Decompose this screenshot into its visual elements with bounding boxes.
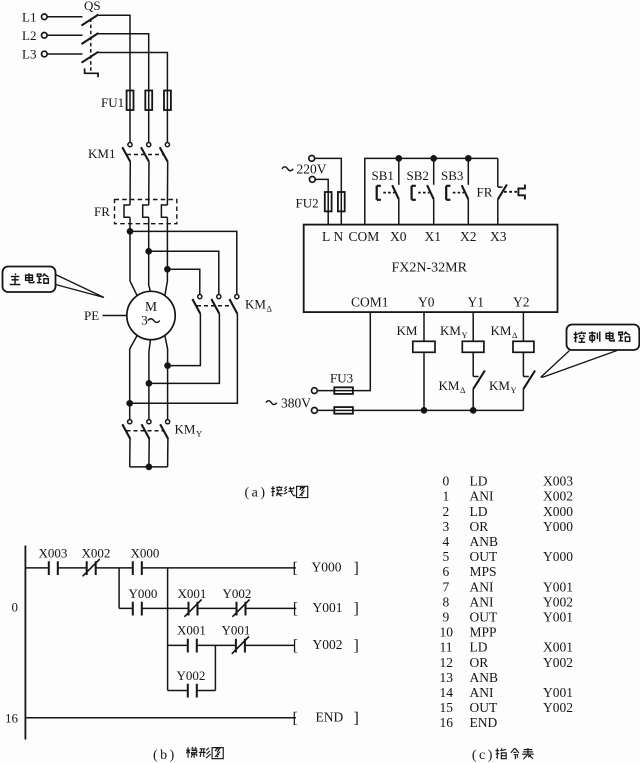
svg-text:15: 15 [440,700,454,715]
node phase C to delta pole 1 [165,267,200,295]
label KM Y NC contact [489,378,517,395]
coil KM delta [513,341,534,352]
pushbutton SB2 [412,158,434,224]
fuse FU1 pole 1 [127,91,134,111]
wire phase B (QS to KM1) [99,34,149,143]
svg-text:3: 3 [443,519,450,534]
caption (b) [153,747,223,763]
svg-text:LD: LD [470,640,488,655]
svg-text:10: 10 [440,625,454,640]
output coil Y000 [293,560,359,578]
NC contact Y002 [232,600,249,617]
switch QS pole 1 [47,15,98,26]
svg-text:KM: KM [245,297,266,312]
svg-text:ANB: ANB [470,534,499,549]
node phase B to delta pole 2 [146,249,219,295]
svg-text:Y002: Y002 [543,700,573,715]
svg-text:OUT: OUT [470,549,498,564]
KM1 linkage (dashed) [127,154,163,156]
svg-text:8: 8 [443,594,450,609]
PLC FX2N-32MR box [304,225,558,313]
node delta2 / B' [146,381,151,386]
svg-text:M: M [145,299,157,314]
wire phase C (QS to KM1) [99,53,168,143]
wire COM1 to FU3 [317,312,370,391]
output coil Y001 [293,600,359,618]
svg-text:KM: KM [397,323,418,338]
wire COM riser and input bus [365,158,498,224]
wire delta pole1 to motor lead C' [168,314,201,366]
svg-text:ANI: ANI [470,594,494,609]
svg-text:4: 4 [443,534,450,549]
caption (c) [472,748,534,763]
terminal 380V a [312,388,318,394]
wire Y2 to KMdelta coil [522,312,524,341]
svg-text:X1: X1 [425,229,442,244]
svg-text:[: [ [293,560,298,577]
NC contact KM delta [473,371,485,411]
coil KM [413,341,435,352]
contactor KM delta pole 1 [192,295,202,314]
svg-text:COM1: COM1 [351,295,389,310]
fuse FU2 pole 2 [338,192,345,211]
fuse FU1 pole 2 [145,91,152,111]
svg-text:FR: FR [477,185,493,200]
svg-text:KM: KM [440,323,461,338]
contactor KM1 pole 3 [160,143,170,162]
terminal L1 [42,14,48,20]
coil KM Y [462,341,484,352]
thermal overload FR box (dashed) [115,200,177,224]
svg-text:Δ: Δ [267,304,273,314]
svg-text:ANI: ANI [470,579,494,594]
svg-text:Y000: Y000 [129,586,158,601]
svg-text:Δ: Δ [460,385,466,395]
label KM Y coil [440,323,468,340]
contactor KM Y pole 2 [142,420,151,439]
wire KMY pole2 to star point [148,439,150,467]
callout box control circuit label [541,325,640,378]
terminal 380V b [312,408,318,414]
svg-text:X003: X003 [543,474,573,489]
svg-text:N: N [334,229,344,244]
svg-text:Y002: Y002 [543,655,573,670]
contact X001 [188,639,197,653]
left power rail [24,546,26,740]
NC contact X002 [83,559,100,576]
terminal 220V L [309,156,315,162]
svg-text:X3: X3 [490,229,507,244]
svg-text:5: 5 [443,549,450,564]
svg-text:7: 7 [443,579,450,594]
svg-text:L: L [322,229,330,244]
svg-text:Y001: Y001 [543,610,573,625]
svg-text:220V: 220V [297,162,327,177]
QS handle [85,68,99,77]
motor lead B' (motor to KMY) [149,339,151,419]
svg-text:Y: Y [196,429,202,439]
PLC terminal labels bottom row [351,295,530,310]
svg-text:KM1: KM1 [88,146,115,161]
wire phase C (FR to motor) [165,217,168,296]
svg-text:SB3: SB3 [441,168,463,183]
svg-text:(c): (c) [472,748,495,763]
svg-text:9: 9 [443,610,450,625]
rung 2 (Y002) wire segments [168,644,295,646]
label KM delta NC contact [439,378,467,395]
svg-text:Δ: Δ [512,330,518,340]
svg-text:MPP: MPP [470,625,497,640]
svg-text:Y: Y [462,330,468,340]
label KM Y [175,422,203,439]
terminal 220V N [309,177,315,183]
contactor KM1 pole 2 [141,143,151,162]
label KM delta coil [491,323,519,340]
node phase A to delta pole 3 [127,229,236,295]
PLC terminal labels top row [322,229,507,244]
svg-text:[: [ [293,638,298,655]
svg-text:X003: X003 [39,546,68,561]
wire phase A (KM1 to FR) [129,162,131,205]
svg-text:MPS: MPS [470,564,497,579]
svg-text:ANI: ANI [470,685,494,700]
wire phase A (FR to motor) [130,217,137,296]
svg-text:KM: KM [491,323,512,338]
rung 1 (parallel Y000) wire segments [119,607,296,609]
fuse FU3 pole 1 [334,387,353,394]
svg-text:Y1: Y1 [468,295,485,310]
contactor KM1 pole 1 [122,143,132,162]
pushbutton SB1 [377,158,399,224]
node delta3 / A' [127,401,132,406]
svg-text:FU1: FU1 [101,95,124,110]
svg-text:Y000: Y000 [543,549,573,564]
wire phase C (KM1 to FR) [166,162,168,205]
svg-text:380V: 380V [281,396,311,411]
svg-text:X000: X000 [543,504,573,519]
output coil Y002 [293,637,359,655]
KM Y linkage (dashed) [127,430,164,432]
output END [293,710,359,727]
svg-text:SB2: SB2 [407,168,429,183]
svg-text:16: 16 [5,711,19,726]
pushbutton SB3 [446,158,468,224]
svg-text:Y002: Y002 [543,594,573,609]
NC contact Y001 [232,637,249,654]
svg-text:LD: LD [470,504,488,519]
svg-text:(b): (b) [153,748,177,763]
wire KMdelta coil to NC contact [522,352,524,376]
svg-text:KM: KM [175,422,196,437]
wire delta pole3 to motor lead A' [130,314,238,403]
svg-text:X002: X002 [82,546,111,561]
svg-text:COM: COM [349,229,380,244]
svg-text:FR: FR [94,204,110,219]
svg-text:Y001: Y001 [543,579,573,594]
svg-text:12: 12 [440,655,454,670]
svg-text:OR: OR [470,519,489,534]
svg-text:13: 13 [440,670,454,685]
wire KM coil to rail [423,352,425,410]
svg-text:END: END [470,715,498,730]
wire KMY pole1 to star point [129,439,131,467]
svg-text:]: ] [354,560,359,577]
node rail/KM coil [421,408,426,413]
fuse FU3 pole 2 [334,407,353,414]
wire Y0 to KM coil [423,312,425,341]
branch wire up (rejoin after X001) [214,645,216,690]
svg-text:Y002: Y002 [313,637,343,652]
svg-text:14: 14 [440,685,454,700]
node bus/SB1 [396,156,401,161]
svg-text:Y: Y [511,385,517,395]
branch wire down (Y002 parallel) [167,645,169,690]
label ~220V [282,162,327,177]
svg-text:X001: X001 [178,586,207,601]
svg-text:]: ] [354,601,359,618]
rung 3 (parallel Y002) wire segments [168,690,216,692]
svg-text:Y001: Y001 [543,685,573,700]
svg-text:LD: LD [470,474,488,489]
motor M [127,291,175,339]
label ~380V [266,396,311,411]
KM delta linkage (dashed) [197,305,232,307]
junction wire (after X000 block, MPS node) [167,568,169,646]
node bus/SB3 [466,156,471,161]
svg-text:16: 16 [440,715,454,730]
contact X000 [133,561,142,575]
svg-text:0: 0 [12,600,19,615]
svg-text:[: [ [293,710,298,727]
svg-text:FX2N-32MR: FX2N-32MR [392,261,468,276]
wire KMY pole3 to star point [167,439,169,467]
node rail/KMY branch [471,408,476,413]
svg-text:ANI: ANI [470,489,494,504]
wire KMY coil to NC contact [472,352,474,376]
svg-text:0: 0 [443,474,450,489]
svg-text:11: 11 [440,640,453,655]
svg-text:Y0: Y0 [418,295,435,310]
svg-text:Y000: Y000 [543,519,573,534]
label KM delta [245,297,273,314]
wire Y1 to KMY coil [472,312,474,341]
svg-text:3: 3 [141,313,148,328]
FR heater element 1 [124,205,130,217]
terminal L2 [42,33,48,39]
wire 220V N to FU2a [315,179,328,224]
motor lead A' (motor to KMY) [130,335,138,420]
svg-text:Y000: Y000 [312,560,342,575]
caption (a) [245,486,308,501]
output common rail 380V [317,409,523,411]
node delta1 / C' [165,363,170,368]
contactor KM Y pole 3 [160,420,170,439]
svg-text:[: [ [293,601,298,618]
svg-text:FU2: FU2 [296,196,319,211]
svg-text:QS: QS [84,0,101,13]
svg-text:ANB: ANB [470,670,499,685]
rung 16 END wire [25,717,296,719]
svg-text:Y2: Y2 [513,295,530,310]
svg-text:END: END [316,710,344,725]
svg-text:X001: X001 [177,623,206,638]
wire PE to motor [103,315,127,317]
svg-text:(a): (a) [245,486,268,501]
svg-text:OUT: OUT [470,610,498,625]
FR NC input contact [498,158,525,224]
motor lead C' (motor to KMY) [165,335,168,420]
wire phase A (QS to KM1) [99,15,131,142]
svg-text:X0: X0 [390,229,407,244]
NC contact X001 [184,600,201,617]
svg-text:2: 2 [443,504,450,519]
fuse FU1 pole 3 [164,91,171,111]
svg-text:X2: X2 [460,229,477,244]
star point bar [130,464,168,469]
wire phase B (KM1 to FR) [148,162,150,205]
svg-text:KM: KM [439,378,460,393]
svg-text:FU3: FU3 [330,371,353,386]
svg-text:X001: X001 [543,640,573,655]
switch QS pole 3 [47,52,98,63]
NC contact KM Y [523,371,535,411]
svg-text:1: 1 [443,489,450,504]
rung 0 wire segments [25,567,296,569]
svg-text:SB1: SB1 [372,168,394,183]
svg-text:Y002: Y002 [223,586,252,601]
wire phase B (FR to motor) [149,217,151,291]
contactor KM delta pole 3 [229,295,239,314]
svg-text:L3: L3 [22,47,36,62]
contactor KM Y pole 1 [122,420,132,439]
FR heater element 3 [161,205,167,217]
svg-text:KM: KM [489,378,510,393]
fuse FU2 pole 1 [325,192,332,211]
callout box main circuit label [3,267,105,298]
svg-text:6: 6 [443,564,450,579]
svg-text:Y002: Y002 [177,668,206,683]
svg-text:X000: X000 [131,546,160,561]
contact Y002 [188,684,197,698]
FR heater element 2 [143,205,149,217]
svg-text:OUT: OUT [470,700,498,715]
svg-text:Y001: Y001 [222,623,251,638]
svg-text:PE: PE [84,308,99,323]
contact Y000 [133,602,142,616]
contactor KM delta pole 2 [211,295,221,314]
svg-text:L2: L2 [22,28,36,43]
contact X003 [49,561,58,575]
terminal L3 [42,51,48,57]
svg-text:Y001: Y001 [313,600,343,615]
svg-text:]: ] [354,638,359,655]
branch wire down (after X002) [118,568,120,609]
svg-text:X002: X002 [543,489,573,504]
QS linkage (dashed) [90,19,92,73]
switch QS pole 2 [47,33,98,44]
node bus/SB2 [431,156,436,161]
svg-text:OR: OR [470,655,489,670]
wire 220V L to FU2b [315,158,342,224]
svg-text:]: ] [354,710,359,727]
wire delta pole2 to motor lead B' [149,314,220,384]
svg-text:L1: L1 [22,9,36,24]
